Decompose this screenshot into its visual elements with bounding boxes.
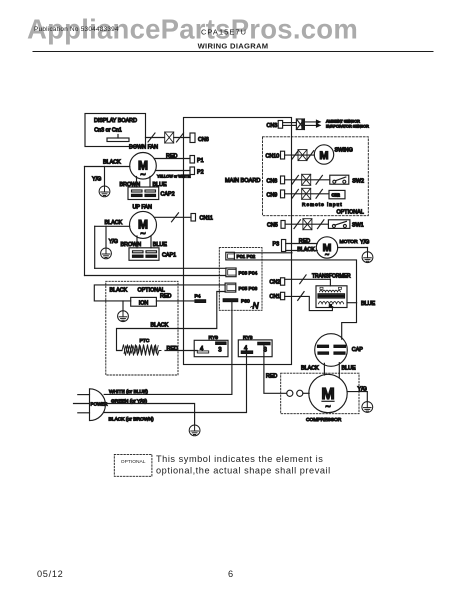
svg-text:BLACK: BLACK	[301, 366, 319, 372]
connector plug	[302, 188, 311, 199]
svg-text:Y/G: Y/G	[360, 240, 369, 246]
wire splice slash	[294, 220, 300, 229]
wire transformer to blue bus	[347, 302, 357, 304]
wire CN2 to transformer	[285, 278, 331, 280]
overload protector	[287, 390, 293, 396]
svg-text:SW1: SW1	[352, 222, 364, 228]
wire splice slash	[172, 213, 179, 222]
svg-text:P60: P60	[241, 299, 250, 305]
svg-text:BLACK: BLACK	[110, 287, 128, 293]
wire	[285, 179, 330, 181]
svg-text:P03 P04: P03 P04	[239, 271, 258, 277]
motor M vent	[316, 237, 337, 258]
run capacitor CAP	[315, 334, 364, 367]
connector plug	[303, 219, 312, 230]
wire	[285, 193, 329, 195]
wire black ION to P05	[94, 285, 225, 301]
svg-text:4: 4	[200, 346, 204, 352]
svg-text:~: ~	[325, 402, 330, 412]
svg-text:AMBIENT SENSOR: AMBIENT SENSOR	[326, 120, 360, 124]
svg-text:CN6: CN6	[267, 179, 278, 185]
svg-text:~: ~	[140, 229, 145, 239]
connector P60	[223, 299, 238, 302]
svg-text:EVAPORATOR SENSOR: EVAPORATOR SENSOR	[326, 125, 369, 129]
wire splice slash	[307, 151, 313, 160]
wire splice slash	[292, 189, 298, 198]
svg-text:3: 3	[218, 347, 222, 353]
wire splice slash	[177, 133, 184, 142]
svg-text:WHITE (or BLUE): WHITE (or BLUE)	[109, 389, 148, 395]
connector dashed box on board	[219, 248, 262, 311]
svg-text:OPTIONAL: OPTIONAL	[138, 287, 165, 293]
svg-text:DISPLAY BOARD: DISPLAY BOARD	[94, 118, 137, 124]
svg-text:M: M	[319, 150, 328, 162]
svg-text:Publication No 5304483394: Publication No 5304483394	[34, 26, 119, 33]
wire green to ground	[104, 404, 194, 425]
svg-text:2L: 2L	[329, 304, 333, 308]
svg-text:BLUE: BLUE	[361, 301, 375, 307]
ground ION	[122, 301, 124, 311]
motor M down-fan	[130, 153, 157, 180]
svg-text:CN5: CN5	[267, 222, 278, 228]
svg-text:optional,the actual shape shal: optional,the actual shape shall prevail	[156, 465, 331, 475]
svg-text:BLUE: BLUE	[342, 366, 356, 372]
ground compressor	[362, 402, 373, 413]
svg-text:YELLOW or WHITE: YELLOW or WHITE	[157, 175, 191, 179]
svg-text:CN1: CN1	[270, 294, 281, 300]
svg-text:P05 P06: P05 P06	[239, 286, 258, 292]
evaporator sensor lead	[304, 124, 320, 126]
ground power cord	[189, 425, 200, 436]
svg-text:Cn3 or Cn1: Cn3 or Cn1	[94, 128, 122, 134]
svg-text:Remote input: Remote input	[302, 202, 343, 208]
svg-text:6: 6	[228, 569, 233, 579]
main board U1 outline	[184, 118, 292, 365]
wire P60 neutral to power white	[104, 302, 232, 395]
svg-text:M: M	[321, 386, 334, 403]
svg-text:MAIN BOARD: MAIN BOARD	[225, 178, 260, 184]
svg-text:05/12: 05/12	[37, 569, 64, 579]
svg-text:N: N	[253, 301, 260, 311]
compressor optional dashed box	[281, 373, 359, 414]
connector P01 P02	[226, 252, 235, 260]
svg-text:CN8: CN8	[198, 137, 209, 143]
connector CN11	[191, 214, 196, 222]
svg-text:P2: P2	[197, 170, 204, 176]
wire CN1 to transformer	[285, 296, 333, 310]
connector P05 P06	[225, 283, 236, 292]
svg-text:CAP2: CAP2	[161, 192, 175, 198]
ground vent motor	[362, 252, 373, 263]
wire RY8 pin3 to overload	[264, 345, 287, 394]
connector P03 P04	[226, 268, 236, 277]
svg-text:BLACK: BLACK	[151, 323, 169, 329]
svg-text:UP FAN: UP FAN	[133, 205, 152, 211]
svg-text:CN2: CN2	[270, 279, 281, 285]
wire splice slash	[300, 275, 306, 284]
svg-text:RED: RED	[266, 374, 277, 380]
svg-text:P1: P1	[197, 158, 204, 164]
wire P06 to PTC	[117, 292, 226, 351]
connector plug on sensor wires	[296, 119, 304, 130]
ION generator	[131, 297, 157, 306]
svg-text:CAP1: CAP1	[162, 253, 176, 259]
svg-text:OPTIONAL: OPTIONAL	[337, 210, 364, 216]
connector plug	[298, 150, 307, 161]
motor M swing	[314, 145, 333, 164]
svg-text:WIRING DIAGRAM: WIRING DIAGRAM	[198, 42, 269, 51]
svg-text:CN3: CN3	[267, 123, 278, 129]
capacitor CAP2	[128, 187, 175, 200]
motor M up-fan	[130, 211, 157, 238]
svg-text:CPA15E7U: CPA15E7U	[201, 28, 247, 37]
svg-text:ION: ION	[139, 300, 149, 306]
svg-text:RED: RED	[160, 294, 171, 300]
svg-text:CAP: CAP	[352, 347, 363, 353]
svg-text:P01 P02: P01 P02	[237, 254, 256, 260]
svg-text:BROWN: BROWN	[121, 242, 142, 248]
svg-text:Y/G: Y/G	[109, 239, 118, 245]
wire	[285, 223, 328, 225]
svg-text:This symbol indicates the elem: This symbol indicates the element is	[156, 454, 323, 464]
connector plug on down-fan signal wire	[165, 132, 174, 143]
svg-text:P4: P4	[195, 293, 201, 299]
svg-text:Y/G: Y/G	[92, 177, 101, 183]
power plug	[74, 389, 109, 421]
svg-text:~: ~	[325, 252, 329, 259]
wire P01	[234, 252, 292, 254]
svg-text:BLUE: BLUE	[153, 242, 167, 248]
wire P02 to blue bus	[234, 260, 356, 339]
wire splice slash	[318, 220, 324, 229]
svg-text:PTC: PTC	[140, 338, 150, 344]
svg-text:OPTIONAL: OPTIONAL	[121, 459, 146, 465]
svg-text:SW2: SW2	[352, 178, 364, 184]
connector P1	[190, 156, 195, 164]
remote receiver CN2	[329, 190, 345, 198]
header rule	[33, 51, 433, 53]
svg-text:~: ~	[140, 170, 145, 180]
wire splice slash	[316, 175, 322, 184]
display board	[85, 114, 146, 147]
optional dashed box (remote/swing)	[263, 137, 369, 216]
switch SW1	[328, 220, 363, 229]
svg-text:COMPRESSOR: COMPRESSOR	[306, 417, 342, 423]
wire	[174, 137, 190, 139]
svg-text:CN10: CN10	[266, 154, 280, 160]
wire splice slash	[292, 175, 298, 184]
capacitor CAP1	[129, 248, 176, 260]
optional dashed box (ION / PTC)	[106, 281, 178, 375]
svg-text:CN9: CN9	[267, 193, 278, 199]
ambient sensor lead	[304, 121, 320, 123]
svg-text:CN2: CN2	[332, 192, 341, 197]
switch SW2	[330, 175, 364, 184]
svg-text:DOWN FAN: DOWN FAN	[129, 145, 158, 151]
relay RY9	[194, 335, 228, 357]
compressor motor	[309, 374, 347, 412]
svg-text:CN11: CN11	[200, 216, 213, 222]
svg-text:P3: P3	[273, 241, 280, 247]
connector P2	[190, 167, 195, 175]
svg-text:BLACK: BLACK	[103, 160, 121, 166]
svg-text:SWING: SWING	[335, 148, 353, 154]
relay RY8	[238, 335, 272, 357]
connector plug	[302, 174, 311, 185]
wire splice slash	[148, 133, 155, 142]
connector CN8	[190, 133, 195, 143]
wire splice slash	[292, 151, 298, 160]
svg-text:BLACK: BLACK	[105, 220, 123, 226]
wire RY8 pin4 to power black	[104, 353, 246, 412]
svg-text:MOTOR: MOTOR	[340, 239, 359, 245]
wire display board to CN8	[146, 137, 165, 139]
legend optional box	[114, 454, 152, 476]
transformer T1	[312, 273, 351, 308]
wire splice slash	[298, 292, 304, 301]
sensor pair wires	[283, 122, 297, 124]
wire splice slash	[316, 189, 322, 198]
svg-text:BLACK (or BROWN): BLACK (or BROWN)	[109, 416, 154, 422]
wire	[285, 154, 315, 156]
wire up-fan to CN11	[154, 216, 191, 218]
svg-text:TRANSFORMER: TRANSFORMER	[312, 273, 351, 279]
